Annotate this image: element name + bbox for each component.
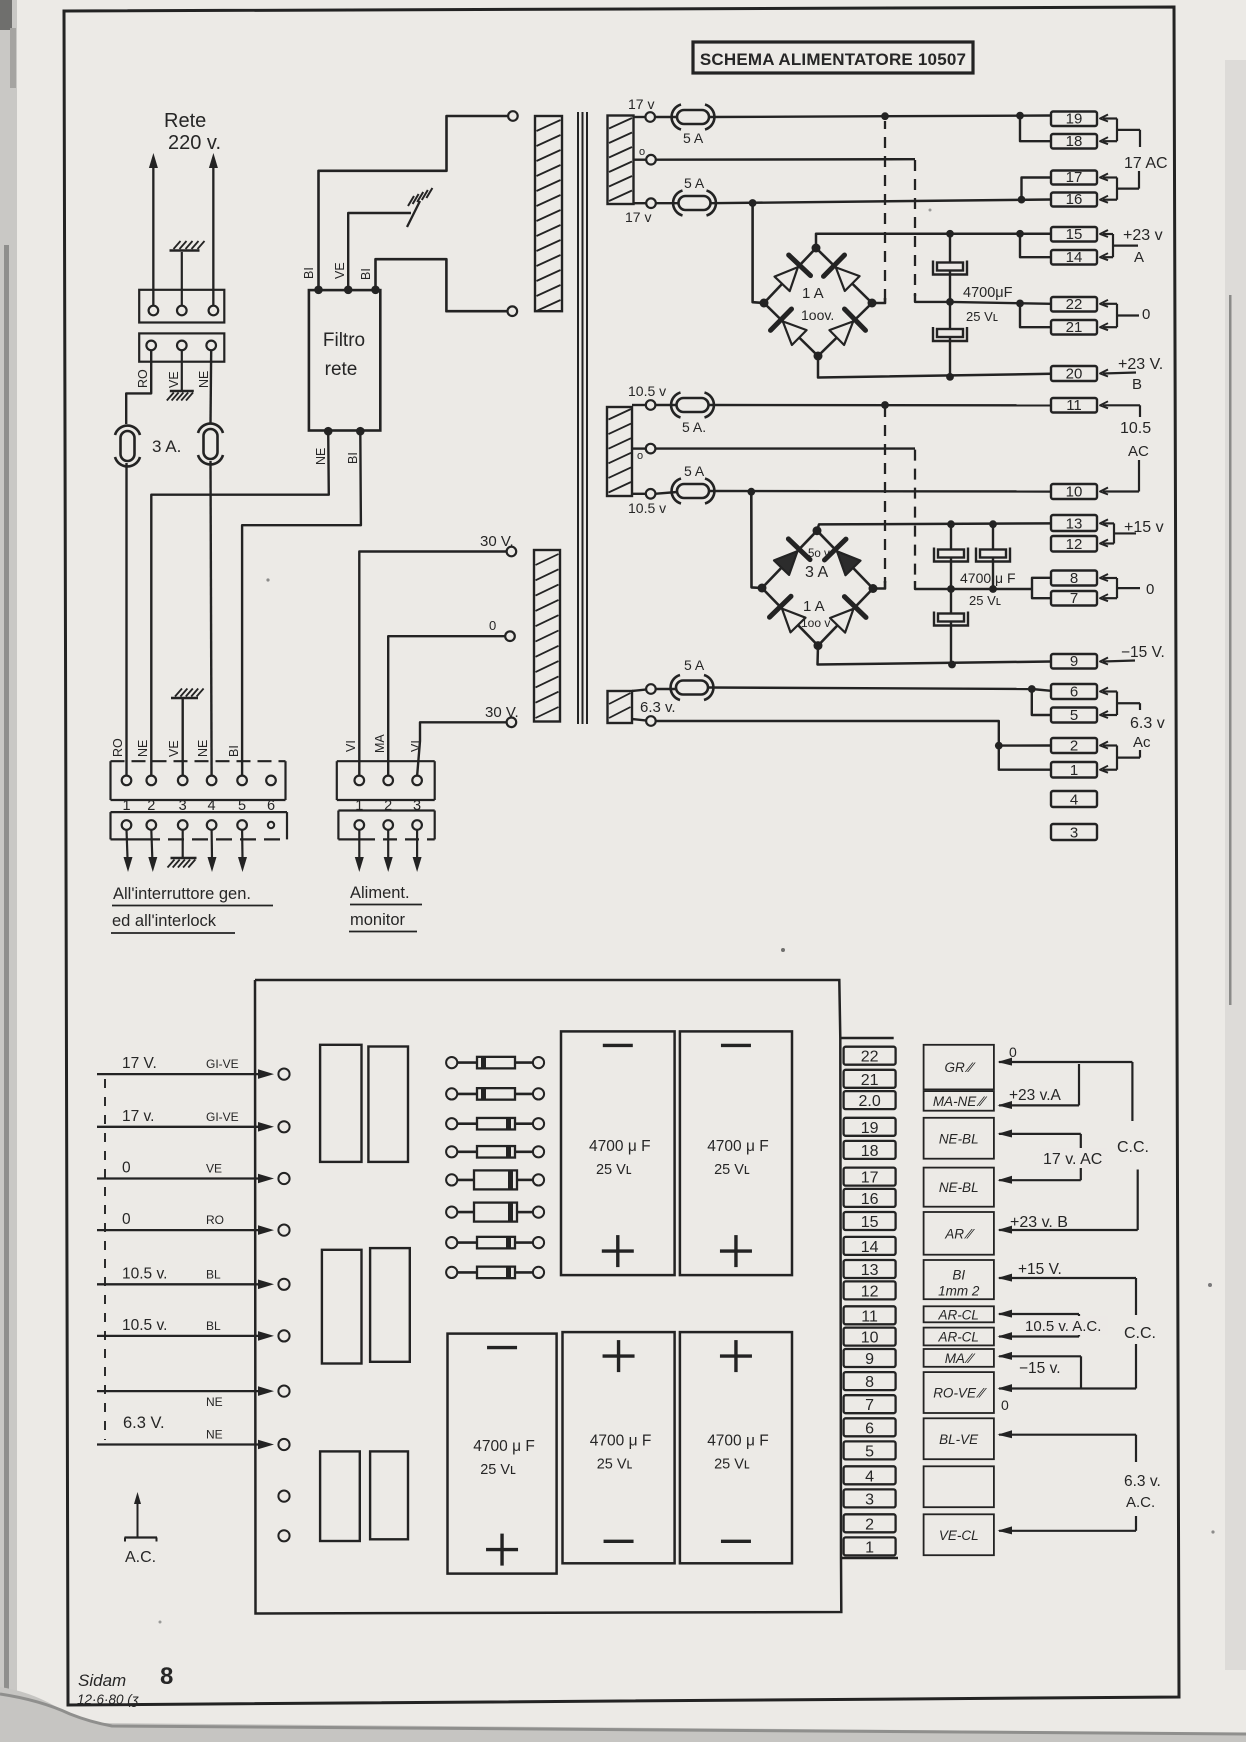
svg-text:4700 μ F: 4700 μ F <box>590 1432 652 1449</box>
svg-text:17 v: 17 v <box>628 96 654 112</box>
output +15V line BI <box>998 1274 1013 1282</box>
pin circle <box>209 306 219 316</box>
svg-text:12: 12 <box>1066 536 1083 553</box>
junction <box>995 742 1003 750</box>
svg-text:AR-CL: AR-CL <box>937 1330 979 1345</box>
pin circle J2-4 <box>207 776 217 786</box>
junction <box>747 488 755 496</box>
terminal 0 mid <box>646 444 656 454</box>
pin circle lower J2-4 <box>207 820 217 830</box>
svg-text:+23 v: +23 v <box>1123 227 1163 244</box>
svg-text:o: o <box>639 146 645 158</box>
svg-text:25 Vʟ: 25 Vʟ <box>714 1456 750 1472</box>
fuse F2 3A <box>204 429 218 459</box>
terminal strip pin 19 <box>844 1118 896 1137</box>
svg-text:BI: BI <box>952 1268 965 1283</box>
svg-text:−15 V.: −15 V. <box>1121 644 1165 661</box>
pad circle column1 row2 <box>278 1121 289 1132</box>
wire label box RO-VE ⁄⁄ <box>924 1372 994 1413</box>
capacitor C9 4700uF 25VL layout <box>563 1332 675 1563</box>
node bridge B1 top <box>812 244 821 253</box>
terminal box pin 14 <box>1051 249 1097 266</box>
wire branch to terminal 17 <box>1022 178 1052 200</box>
pin circle J2-6 <box>266 776 276 786</box>
terminal strip pin 3 <box>844 1489 896 1508</box>
fuse F6 5A <box>655 492 677 494</box>
transformer core <box>577 112 579 724</box>
svg-text:MA-NE ⁄⁄: MA-NE ⁄⁄ <box>933 1094 988 1109</box>
pin circle J2-3 <box>178 776 188 786</box>
wire label box NE-BL <box>924 1168 994 1207</box>
wire AC feed to bridge B1 left <box>753 203 764 303</box>
terminal 6.3 top <box>646 684 656 694</box>
svg-text:BI: BI <box>359 268 373 280</box>
svg-text:18: 18 <box>861 1143 879 1160</box>
capacitor C7 4700uF 25VL layout <box>680 1031 792 1275</box>
bridge rectifier B2 3A/1A <box>762 531 873 646</box>
ground earth above pin3 <box>171 697 198 700</box>
svg-text:NE: NE <box>197 371 211 388</box>
svg-text:30 V.: 30 V. <box>485 704 519 721</box>
pad circle column1 row8 <box>278 1439 289 1450</box>
svg-text:+23 V.: +23 V. <box>1118 356 1163 373</box>
pin circle J3-3 <box>412 776 422 786</box>
diode D6 filled <box>837 551 861 575</box>
filter box Filtro rete <box>309 290 380 430</box>
svg-text:VE: VE <box>167 740 181 757</box>
pin circle VE <box>177 341 187 351</box>
diode D2 <box>836 267 860 291</box>
svg-text:+23 v. B: +23 v. B <box>1010 1214 1068 1231</box>
wire 0 tap 17v <box>655 158 915 161</box>
terminal strip pin 9 <box>844 1349 896 1368</box>
svg-text:4700 μ F: 4700 μ F <box>473 1438 535 1455</box>
output bracket 10.5v AC AR-CL pair <box>998 1310 1013 1318</box>
capacitor C6 4700uF 25VL layout <box>561 1031 675 1275</box>
terminal box pin 16 <box>1051 191 1097 208</box>
svg-text:MA ⁄⁄: MA ⁄⁄ <box>945 1351 976 1366</box>
terminal box pin 13 <box>1051 515 1097 533</box>
scan streak right edge <box>1225 60 1246 1670</box>
junction <box>1016 230 1024 238</box>
output 0 line GR <box>998 1058 1013 1066</box>
svg-text:10.5: 10.5 <box>1120 420 1151 437</box>
svg-text:8: 8 <box>865 1374 874 1391</box>
output bracket 6.3v AC BL-VE / VE-CL <box>998 1430 1013 1438</box>
svg-text:RO: RO <box>206 1213 224 1227</box>
svg-text:4700μF: 4700μF <box>963 285 1013 301</box>
terminal box pin 9 <box>1051 653 1097 670</box>
layout winding block 2 <box>368 1047 408 1162</box>
wire label box BI <box>924 1260 994 1299</box>
ground earth at mains connector <box>170 249 200 252</box>
node bridge B1 bottom <box>814 352 823 361</box>
svg-text:1 A: 1 A <box>803 598 825 615</box>
svg-text:6: 6 <box>1070 684 1078 701</box>
wire dashed bundle left <box>104 1079 106 1440</box>
svg-text:17 v.: 17 v. <box>122 1108 154 1125</box>
pin circle lower J3-3 <box>412 820 422 830</box>
svg-text:13: 13 <box>861 1262 879 1279</box>
arrow to interruttore pin1 <box>127 830 128 859</box>
pin circle <box>177 306 187 316</box>
output arrow +23v B terminal 20 <box>1100 370 1108 377</box>
svg-text:RO: RO <box>111 738 125 757</box>
junction <box>946 230 954 238</box>
svg-text:A.C.: A.C. <box>1126 1494 1155 1511</box>
svg-text:−15 v.: −15 v. <box>1019 1360 1061 1377</box>
output +23vA line MA-NE <box>998 1101 1013 1109</box>
svg-text:0: 0 <box>122 1160 131 1177</box>
capacitor C1 4700uF chain <box>949 234 951 302</box>
svg-text:NE-BL: NE-BL <box>939 1180 979 1195</box>
pin circle lower J2-6 <box>268 822 274 828</box>
svg-text:SCHEMA ALIMENTATORE 10507: SCHEMA ALIMENTATORE 10507 <box>700 50 966 69</box>
arrow to interruttore pin5 <box>241 830 244 859</box>
svg-text:AC: AC <box>1128 443 1149 460</box>
svg-text:30 V.: 30 V. <box>480 533 514 550</box>
svg-text:Sidam: Sidam <box>78 1671 126 1690</box>
pad circle column1 row7 <box>278 1386 289 1397</box>
wire 10.5 bottom to terminal 10 <box>710 490 1052 493</box>
terminal strip pin 14 <box>844 1237 896 1256</box>
net CC bundle vertical 2 <box>1135 1278 1137 1315</box>
fuse F7 5A <box>655 688 676 690</box>
svg-text:5o v: 5o v <box>808 548 830 560</box>
diode D4 <box>829 321 853 345</box>
wire 6.3 bottom to terminals 2-1 <box>655 721 999 746</box>
svg-text:All'interruttore gen.: All'interruttore gen. <box>113 885 251 903</box>
svg-text:C.C.: C.C. <box>1124 1325 1156 1342</box>
svg-text:21: 21 <box>861 1072 879 1089</box>
svg-text:4: 4 <box>865 1468 874 1485</box>
wire label box AR-CL <box>924 1328 994 1346</box>
terminal strip pin 17 <box>844 1168 896 1187</box>
svg-text:5 A: 5 A <box>684 175 705 191</box>
transformer T1 primary winding 1 <box>508 111 518 121</box>
diode D7 <box>782 609 806 633</box>
svg-text:Aliment.: Aliment. <box>350 884 410 902</box>
terminal box pin 2 <box>1051 738 1097 755</box>
output bracket 0 pair 8-7 <box>1100 574 1108 581</box>
svg-text:NE-BL: NE-BL <box>939 1131 979 1146</box>
svg-text:NE: NE <box>136 740 150 757</box>
terminal 10.5 top <box>646 400 656 410</box>
title box SCHEMA ALIMENTATORE 10507 <box>693 42 973 73</box>
svg-text:BI: BI <box>302 267 316 279</box>
terminal box pin 20 <box>1051 366 1097 383</box>
terminal box pin 11 <box>1051 397 1097 414</box>
svg-text:A.C.: A.C. <box>125 1549 156 1566</box>
scan edge left strip <box>0 0 17 1742</box>
transformer T1 secondary 10.5V winding <box>607 407 632 496</box>
junction <box>1016 300 1024 308</box>
diode CR7 <box>446 1237 544 1249</box>
node bridge B2 right <box>869 584 878 593</box>
wire +15 rail from bridge B2 top <box>817 523 1051 530</box>
svg-text:rete: rete <box>325 359 358 380</box>
terminal strip pin 21 <box>844 1070 896 1089</box>
terminal box pin 19 <box>1051 111 1097 128</box>
ground earth VE wire <box>181 350 183 391</box>
capacitor C3 4700uF 25VL <box>938 550 964 558</box>
pin circle RO <box>146 341 156 351</box>
fuse F1 3A <box>121 431 135 461</box>
terminal strip pin 15 <box>844 1212 896 1231</box>
svg-text:AR ⁄⁄: AR ⁄⁄ <box>944 1226 975 1241</box>
capacitor C10 4700uF 25VL layout <box>680 1332 792 1563</box>
connector J2 lower row <box>111 812 288 839</box>
wire fuse F2 to pin4 <box>211 461 212 776</box>
wire mains L arrow up <box>152 157 154 305</box>
capacitor C5 4700uF 25VL <box>938 614 964 622</box>
capacitor C3 chain <box>950 524 952 589</box>
svg-text:VE: VE <box>167 371 181 388</box>
diode CR5 <box>446 1170 544 1189</box>
wire label box MA-NE ⁄⁄ <box>924 1091 994 1111</box>
terminal 17v bottom <box>646 198 656 208</box>
output bracket 17 AC pair 19-18 <box>1100 115 1108 122</box>
terminal strip pin 2 <box>844 1514 896 1533</box>
svg-text:17 AC: 17 AC <box>1124 155 1168 172</box>
terminal strip pin 1 <box>844 1537 896 1556</box>
wire 30V bottom to monitor pin3 VI <box>417 722 507 776</box>
svg-text:25 Vʟ: 25 Vʟ <box>966 309 998 324</box>
wire branch to terminal 14 <box>1020 234 1051 257</box>
wire AC feed dashed to bridge B1 right <box>872 298 885 303</box>
svg-text:2.0: 2.0 <box>858 1093 880 1110</box>
svg-text:25 Vʟ: 25 Vʟ <box>969 593 1001 608</box>
terminal box pin 7 <box>1051 590 1097 607</box>
svg-text:11: 11 <box>861 1308 878 1325</box>
terminal box pin 5 <box>1051 707 1097 724</box>
terminal BI filtro top-left <box>314 286 323 295</box>
wire input line 7 <box>97 1390 266 1392</box>
svg-text:12·6·80 (ʒ: 12·6·80 (ʒ <box>77 1692 139 1707</box>
svg-text:9: 9 <box>865 1351 874 1368</box>
svg-text:3 A: 3 A <box>805 564 828 581</box>
svg-text:10.5 v. A.C.: 10.5 v. A.C. <box>1025 1318 1101 1335</box>
svg-text:VE-CL: VE-CL <box>939 1528 979 1543</box>
terminal strip pin 4 <box>844 1466 896 1485</box>
svg-text:RO-VE ⁄⁄: RO-VE ⁄⁄ <box>933 1386 987 1401</box>
pin circle lower J2-1 <box>122 820 132 830</box>
svg-text:15: 15 <box>861 1214 879 1231</box>
terminal NE filtro bottom <box>324 427 333 436</box>
terminal BI filtro top-right <box>371 286 380 295</box>
pad circle column1 row4 <box>278 1225 289 1236</box>
svg-text:4: 4 <box>1070 792 1078 809</box>
terminal strip pin 18 <box>844 1141 896 1160</box>
diode D1 <box>775 267 798 291</box>
wire input line 1 <box>97 1073 266 1075</box>
arrow to monitor pin3 <box>416 830 418 859</box>
svg-text:VI: VI <box>409 740 423 752</box>
layout winding block 4 <box>370 1248 410 1362</box>
terminal box pin 17 <box>1051 169 1097 186</box>
svg-text:0: 0 <box>1146 581 1154 598</box>
pin circle lower J2-5 <box>237 820 247 830</box>
svg-text:25 Vʟ: 25 Vʟ <box>714 1162 750 1178</box>
wire dashed AC to bridge B2 right <box>884 406 886 583</box>
wire 0 rail to terminals 8-7 <box>951 588 1032 590</box>
capacitor C8 4700uF 25VL layout <box>448 1334 557 1574</box>
svg-text:6.3 v.: 6.3 v. <box>1124 1473 1161 1490</box>
fuse F3 5A <box>655 116 678 118</box>
wire +23A rail from bridge top <box>816 234 1051 248</box>
wire input line 8 <box>97 1443 266 1445</box>
svg-text:4700 μ F: 4700 μ F <box>707 1138 769 1155</box>
svg-text:0: 0 <box>1001 1397 1009 1413</box>
svg-text:25 Vʟ: 25 Vʟ <box>480 1462 516 1478</box>
svg-text:1: 1 <box>865 1539 874 1556</box>
svg-text:25 Vʟ: 25 Vʟ <box>596 1162 632 1178</box>
svg-text:14: 14 <box>861 1239 879 1256</box>
svg-text:10.5 v.: 10.5 v. <box>122 1317 167 1334</box>
svg-text:6.3 v: 6.3 v <box>1130 715 1165 732</box>
output bracket 6.3v pair 6-5 <box>1100 688 1108 695</box>
svg-text:17 v. AC: 17 v. AC <box>1043 1151 1102 1168</box>
arrow to interruttore pin2 <box>151 830 152 859</box>
connector J2 upper row <box>111 761 286 800</box>
svg-text:17: 17 <box>861 1170 879 1187</box>
svg-text:6: 6 <box>865 1420 874 1437</box>
wire dashed 0 drop to caps 2 <box>914 450 916 583</box>
svg-text:BL-VE: BL-VE <box>939 1432 979 1447</box>
wire 0 rail to terminals 22-21 <box>950 302 1051 304</box>
node bridge B2 bottom <box>814 641 823 650</box>
bridge rectifier B1 1A 100V <box>764 248 872 356</box>
ground earth near primary <box>407 201 420 227</box>
junction <box>989 585 997 593</box>
wire label box AR-CL <box>924 1306 994 1322</box>
svg-text:+15 V.: +15 V. <box>1018 1261 1062 1278</box>
svg-text:0: 0 <box>489 618 496 633</box>
svg-text:16: 16 <box>861 1191 879 1208</box>
terminal VE filtro top-mid <box>344 286 353 295</box>
svg-text:0: 0 <box>1009 1044 1017 1060</box>
terminal box pin 1 <box>1051 762 1097 779</box>
wire input line 5 <box>97 1283 266 1285</box>
terminal box pin 10 <box>1051 484 1097 501</box>
junction <box>946 298 954 306</box>
AC symbol arrow <box>137 1500 139 1538</box>
junction <box>1018 196 1026 204</box>
node bridge B1 left <box>760 299 769 308</box>
svg-text:5 A: 5 A <box>683 130 704 146</box>
wire filtro BI to primary bottom <box>376 259 509 311</box>
output +23vB line AR <box>998 1226 1013 1234</box>
svg-text:BI: BI <box>346 452 360 464</box>
output bracket +15v pair 13-12 <box>1100 519 1108 526</box>
svg-text:0: 0 <box>122 1211 131 1228</box>
wire 17v bottom to terminals 17-16 <box>711 200 1052 204</box>
layout winding block 5 <box>320 1451 360 1541</box>
svg-text:8: 8 <box>160 1663 173 1690</box>
svg-text:BL: BL <box>206 1267 221 1281</box>
svg-text:GR ⁄⁄: GR ⁄⁄ <box>944 1060 975 1075</box>
wire 17v top to terminal 19 <box>709 116 1051 118</box>
wire dashed 0 drop to filter caps <box>914 160 916 296</box>
svg-text:14: 14 <box>1066 249 1083 266</box>
connector J3 monitor upper row <box>337 761 435 800</box>
terminal strip pin 13 <box>844 1260 896 1279</box>
wire filtro BI down-left to pin5 <box>242 431 361 776</box>
label 17 v. AC <box>1041 1148 1107 1168</box>
output -15v line MA <box>998 1352 1013 1360</box>
wire branch to terminal 5 <box>1032 689 1051 715</box>
svg-text:4700 μ F: 4700 μ F <box>707 1432 769 1449</box>
layout winding block 6 <box>370 1451 408 1539</box>
junction <box>989 520 997 528</box>
capacitor C4 4700uF 25VL <box>980 550 1006 558</box>
wire 0 tap to monitor pin2 MA <box>388 636 506 776</box>
svg-text:Filtro: Filtro <box>323 330 365 351</box>
diode D8 <box>830 609 854 633</box>
svg-text:10.5 v: 10.5 v <box>628 500 666 516</box>
terminal BI filtro bottom <box>356 427 365 436</box>
pin circle lower J3-2 <box>383 820 393 830</box>
terminal 6.3 bottom <box>646 716 656 726</box>
capacitor C1 4700uF 25VL <box>937 263 963 271</box>
svg-text:21: 21 <box>1066 319 1083 336</box>
wire label box GR ⁄⁄ <box>924 1045 994 1090</box>
pin circle J2-2 <box>147 776 157 786</box>
junction <box>749 199 757 207</box>
svg-text:25 Vʟ: 25 Vʟ <box>597 1456 633 1472</box>
svg-text:220 v.: 220 v. <box>168 132 221 154</box>
terminal 0 mid <box>646 155 656 165</box>
wire -23B rail from bridge bottom <box>818 356 1051 378</box>
svg-text:o: o <box>637 450 643 462</box>
svg-text:9: 9 <box>1070 653 1078 670</box>
diode CR3 <box>446 1118 544 1130</box>
junction <box>946 373 954 381</box>
svg-text:3 A.: 3 A. <box>152 437 181 456</box>
scan edge bottom strip <box>0 1687 1246 1742</box>
output bracket 10.5 AC pair 11-10 <box>1100 401 1108 408</box>
svg-text:7: 7 <box>865 1397 874 1414</box>
svg-text:12: 12 <box>861 1283 879 1300</box>
svg-text:VE: VE <box>333 262 347 279</box>
diode CR4 <box>446 1146 544 1158</box>
svg-text:13: 13 <box>1066 516 1083 533</box>
wire label box NE-BL <box>924 1118 994 1159</box>
terminal strip pin 22 <box>844 1047 896 1066</box>
wire label box BL-VE <box>924 1418 994 1459</box>
svg-text:18: 18 <box>1066 133 1083 150</box>
svg-text:ed all'interlock: ed all'interlock <box>112 912 217 930</box>
pad circle column1 row5 <box>278 1279 289 1290</box>
junction <box>1028 685 1036 693</box>
svg-text:0: 0 <box>1142 306 1150 323</box>
terminal box pin 3 <box>1051 824 1097 842</box>
arrow to monitor pin1 <box>358 830 360 859</box>
terminal strip pin 20 <box>844 1091 896 1110</box>
terminal strip pin 12 <box>844 1281 896 1300</box>
diode CR1 <box>446 1057 544 1069</box>
pin circle J3-1 <box>355 776 365 786</box>
pin circle <box>149 306 159 316</box>
junction <box>881 112 889 120</box>
diode D3 <box>783 321 807 345</box>
terminal strip pin 7 <box>844 1395 896 1414</box>
diode CR8 <box>446 1267 544 1279</box>
layout winding block 1 <box>320 1045 361 1162</box>
pad circle column1 row3 <box>278 1173 289 1184</box>
svg-text:NE: NE <box>206 1395 223 1409</box>
svg-text:17: 17 <box>1066 169 1083 186</box>
